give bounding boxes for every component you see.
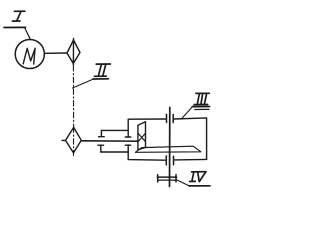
shaft III (vertical) xyxy=(169,108,171,187)
label I (shaft I designator with underline and leader) xyxy=(4,11,30,39)
bevel gear wheel Z2 (flat disc on vertical shaft) xyxy=(135,146,201,152)
shaft II wire into gearbox xyxy=(81,140,138,142)
label III (with double underline and leader) xyxy=(181,93,209,119)
output coupling on shaft IV xyxy=(157,176,176,178)
wire motor shaft to coupling xyxy=(45,52,67,54)
coupling 1 axis line xyxy=(72,39,74,66)
gearbox housing xyxy=(128,119,165,137)
coupling 1 (diamond) xyxy=(67,40,80,64)
shaft axis (dash-dot) between couplings xyxy=(72,66,74,128)
bevel pinion Z1 (with cross) xyxy=(138,122,146,150)
input bearing bracket bottom xyxy=(101,151,128,153)
label II (with underline and leader) xyxy=(73,64,111,88)
bottom bearing of shaft III xyxy=(165,156,167,165)
motor letter M xyxy=(23,48,35,64)
coupling 2 axis line xyxy=(73,127,75,156)
stub left of coupling 2 xyxy=(62,139,66,141)
motor M (electric motor circle) xyxy=(15,39,44,68)
coupling 2 (diamond) xyxy=(66,127,82,152)
label IV (with underline and leader) xyxy=(177,172,211,186)
top bearing of shaft III xyxy=(166,114,168,122)
input bearing bracket top xyxy=(101,129,128,131)
